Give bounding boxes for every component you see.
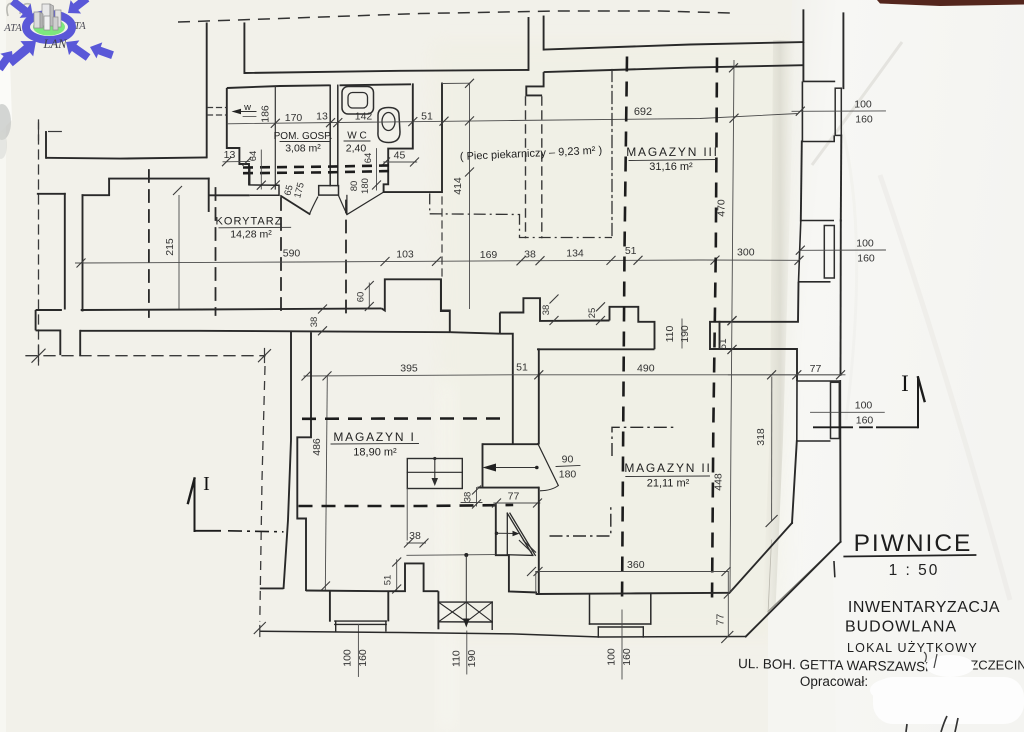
svg-text:180: 180 xyxy=(559,469,577,481)
dim 38 rotated at niche xyxy=(476,488,478,506)
wall: right outer x=843 upper xyxy=(842,13,844,88)
door arrow into MAG I xyxy=(483,464,497,472)
svg-text:395: 395 xyxy=(400,363,418,375)
wall: vertical x=244 top xyxy=(243,23,245,73)
building bottom line xyxy=(260,631,746,637)
dashed chimney lines down to furnace xyxy=(525,97,527,238)
wall: WC south-east steps xyxy=(384,149,442,193)
svg-text:MAGAZYN I: MAGAZYN I xyxy=(333,430,415,444)
thin line with dot y=555 xyxy=(407,554,495,557)
thick dashed vertical (MAG III left) xyxy=(622,57,627,607)
svg-text:TA: TA xyxy=(74,21,86,32)
wall: right inner below W3 xyxy=(792,441,797,523)
top long dashed wall line xyxy=(178,11,731,22)
svg-text:103: 103 xyxy=(396,249,414,261)
wall: pillar between doors xyxy=(319,186,339,196)
svg-text:186: 186 xyxy=(260,105,272,123)
svg-text:INWENTARYZACJA: INWENTARYZACJA xyxy=(848,599,1000,616)
wall: inner top wall right part xyxy=(544,65,804,72)
svg-text:100: 100 xyxy=(855,400,873,412)
logo: blue ellipse ring xyxy=(26,14,72,40)
logo: blue arrows star xyxy=(10,0,33,18)
sink in WC xyxy=(342,87,374,115)
svg-text:160: 160 xyxy=(857,253,875,265)
svg-text:38: 38 xyxy=(541,305,552,316)
thin top link x=442 to dim 469 xyxy=(442,82,470,84)
dashed line MAG I upper y=418 xyxy=(302,417,500,420)
wall: vertical x=442 xyxy=(441,84,443,193)
dim line 395 y=375 xyxy=(304,375,841,376)
svg-text:64: 64 xyxy=(248,151,259,162)
svg-text:51: 51 xyxy=(718,338,729,350)
wall: MAG II west wall upper xyxy=(538,349,540,375)
svg-text:490: 490 xyxy=(637,363,655,375)
dim 45 niche xyxy=(384,161,417,163)
thin dim vertical x=732 xyxy=(730,60,734,592)
svg-text:60: 60 xyxy=(356,292,367,303)
wall: chimney step below xyxy=(526,72,543,95)
dim 60 rotated xyxy=(368,283,370,308)
svg-text:13: 13 xyxy=(316,111,328,123)
wall: jog inner line x=719.5 xyxy=(719,322,721,349)
wall: MAG I bottom walls xyxy=(260,587,284,589)
svg-text:BUDOWLANA: BUDOWLANA xyxy=(845,619,957,636)
dashed property line horizontal y=355.7 xyxy=(26,355,265,357)
wall: step block x=500-540 xyxy=(450,332,500,334)
svg-text:38: 38 xyxy=(524,249,536,261)
svg-text:I: I xyxy=(901,371,909,396)
wall: small left lower stub xyxy=(35,310,37,330)
svg-text:LOKAL UŻYTKOWY: LOKAL UŻYTKOWY xyxy=(847,641,978,655)
svg-text:300: 300 xyxy=(737,247,755,259)
svg-text:51: 51 xyxy=(625,245,637,257)
svg-text:486: 486 xyxy=(311,438,323,456)
dim 360 line xyxy=(536,571,729,573)
wall: WC right x=411-413 xyxy=(412,84,414,148)
wall: corridor north wall with door jambs xyxy=(209,194,250,196)
left sheet bottom-right corner edge (diagonal paper cut) xyxy=(768,551,836,732)
svg-text:18,90 m²: 18,90 m² xyxy=(353,447,397,459)
svg-text:77: 77 xyxy=(810,363,822,375)
svg-text:590: 590 xyxy=(283,248,301,260)
svg-text:170: 170 xyxy=(285,112,303,124)
wall: corridor north-west pieces xyxy=(38,193,65,195)
dash-dot corner bottom in MAG II xyxy=(550,505,611,536)
wall: MAG I doorway right (niche) xyxy=(483,443,539,445)
tick on top wall at dim x=732 xyxy=(729,63,738,72)
toilet in WC xyxy=(378,108,400,143)
svg-text:110: 110 xyxy=(451,650,463,667)
svg-text:KORYTARZ: KORYTARZ xyxy=(216,216,283,228)
wall: lower jamb line xyxy=(477,487,538,489)
left end tick of bottom line xyxy=(259,626,261,637)
window W3 recess xyxy=(797,380,839,382)
dim 486 line x=325 xyxy=(325,376,327,591)
dim 100/160 rotated bottom MAG II xyxy=(621,610,623,679)
svg-text:142: 142 xyxy=(355,111,373,123)
soft creases right sheet xyxy=(812,42,902,165)
svg-text:51: 51 xyxy=(516,362,528,374)
dash mark near left dashed line xyxy=(49,131,62,133)
dim 110/190 rotated bottom xyxy=(466,631,468,674)
window W1 glass frame xyxy=(835,88,841,135)
svg-text:21,11 m²: 21,11 m² xyxy=(647,478,690,490)
svg-text:77: 77 xyxy=(715,614,727,626)
dashed long boundary x=263 xyxy=(260,366,265,622)
svg-text:100: 100 xyxy=(342,649,354,667)
svg-text:45: 45 xyxy=(394,150,406,162)
wall: right outer below W3 xyxy=(839,381,841,542)
heavy dashed row 1 xyxy=(243,165,391,167)
corner hatch marks xyxy=(519,541,531,553)
svg-text:MAGAZYN II: MAGAZYN II xyxy=(624,461,711,475)
wall: rooms top edge xyxy=(227,85,330,88)
svg-text:MAGAZYN III: MAGAZYN III xyxy=(626,145,718,159)
wall: MAGAZYN II bottom xyxy=(536,593,730,594)
window W3 glass frame xyxy=(831,382,840,438)
svg-text:190: 190 xyxy=(466,650,478,668)
svg-text:25: 25 xyxy=(587,308,598,319)
door D2 arc and leaf xyxy=(339,196,348,215)
logo: pencil scribble xyxy=(7,3,30,16)
svg-text:51: 51 xyxy=(383,575,394,586)
svg-text:90: 90 xyxy=(562,454,574,466)
stairs box bottom (cellar entrance) xyxy=(437,591,439,629)
arrow through bottom stairs xyxy=(465,555,467,620)
tick cross at (38.5,355.7) xyxy=(32,349,46,363)
svg-text:1 : 50: 1 : 50 xyxy=(889,562,940,579)
svg-text:31,16 m²: 31,16 m² xyxy=(649,161,693,173)
dashed line MAG I lower y=506 xyxy=(299,505,514,506)
terminal cross of dashed line y=355.7 xyxy=(258,349,271,362)
wall: right inner top x=803 xyxy=(802,10,804,42)
dim line y=262 long xyxy=(75,260,799,263)
dim 64 niche xyxy=(376,149,378,190)
logo: gray buildings xyxy=(34,4,61,30)
svg-text:80: 80 xyxy=(349,181,360,192)
svg-text:51: 51 xyxy=(421,111,433,123)
svg-text:64: 64 xyxy=(363,153,374,164)
window W2 glass frame xyxy=(824,226,834,279)
stair arrow small xyxy=(495,532,498,535)
thin dim vertical below stairs box xyxy=(406,489,408,541)
svg-text:38: 38 xyxy=(409,530,421,542)
wall: corridor south wall y=309 xyxy=(36,309,62,311)
wall: back wall y=349 to MAG II corner xyxy=(537,348,655,350)
wall: top-left vertical x=206 xyxy=(206,23,208,157)
stairs box in MAGAZYN I xyxy=(407,459,462,489)
door MAG I->II leaf + arc xyxy=(538,444,559,486)
svg-text:I: I xyxy=(203,473,210,495)
wall: MAGAZYN I left outer xyxy=(284,331,292,589)
wall: MAG I bottom right zigzag xyxy=(496,503,537,593)
dimension 100/160 window W1 xyxy=(792,110,886,112)
dash-dot corner top in MAG II xyxy=(612,427,675,456)
dashed property line vertical x=38.5 xyxy=(38,120,40,361)
svg-text:448: 448 xyxy=(712,473,724,491)
wall: small left stub x=46 xyxy=(45,132,47,158)
svg-text:100: 100 xyxy=(856,238,874,250)
svg-text:215: 215 xyxy=(164,238,176,256)
furnace dash-dot outline xyxy=(429,193,431,213)
dim 77 with line xyxy=(494,502,540,504)
short thin line at y=502 xyxy=(461,502,482,504)
wall: chimney verticals x=528.5/543.6 xyxy=(528,18,530,70)
long thin vertical dim x=469.5 xyxy=(469,83,471,308)
dim 100/160 rotated bottom left xyxy=(357,624,359,676)
wall: w-room left steps xyxy=(227,88,249,186)
window W3 dimension line 77 xyxy=(728,374,845,376)
small dash below diagonal xyxy=(833,562,836,577)
window W2 recess xyxy=(801,220,834,222)
svg-text:414: 414 xyxy=(452,177,464,195)
heavy dashed row 2 xyxy=(243,171,391,173)
svg-text:38: 38 xyxy=(463,492,474,503)
svg-text:77: 77 xyxy=(508,491,520,503)
door D1 leaf and arc xyxy=(281,196,310,214)
svg-text:Opracował:: Opracował: xyxy=(800,674,868,689)
svg-text:180: 180 xyxy=(360,178,371,194)
svg-text:100: 100 xyxy=(854,99,872,111)
dim 38 above window xyxy=(407,542,426,544)
right sheet (brighter paper) xyxy=(770,0,1024,732)
window box bottom MAG I xyxy=(329,591,331,622)
step wall with 60 xyxy=(382,279,450,332)
svg-text:190: 190 xyxy=(679,325,691,343)
dashed vertical x=442 (opening) xyxy=(441,197,443,280)
window box bottom MAG II xyxy=(589,594,591,624)
svg-text:160: 160 xyxy=(856,415,874,427)
thick dashed vertical (MAG III right) xyxy=(712,58,717,603)
dim 215 rotated + line xyxy=(178,196,180,309)
dimension line y=123 across rooms xyxy=(227,114,798,124)
svg-text:160: 160 xyxy=(855,114,873,126)
svg-text:100: 100 xyxy=(606,648,618,666)
svg-text:134: 134 xyxy=(566,248,584,260)
logo: green inner ellipse xyxy=(33,19,65,36)
gray smudge left edge xyxy=(0,104,11,140)
dim line 318 vertical near paper edge xyxy=(771,377,773,521)
dashed ceiling lines in corridor xyxy=(148,170,150,317)
svg-text:470: 470 xyxy=(716,199,728,217)
svg-text:PIWNICE: PIWNICE xyxy=(854,530,973,557)
window W1 recess xyxy=(802,42,804,81)
wall: MAG I right wall top x=512.8 xyxy=(500,334,513,445)
corner diagonal inner xyxy=(730,523,793,593)
wall: lower wall y=331 xyxy=(80,331,450,332)
wall: inner top wall y=73-70 xyxy=(244,70,528,73)
maroon scanner background strip top-right xyxy=(877,0,1024,6)
handwriting marks bottom right xyxy=(906,716,958,732)
wall: jog left below W2 xyxy=(710,282,799,381)
svg-text:110: 110 xyxy=(664,325,676,342)
light vertical strip bottom center xyxy=(438,380,456,732)
white blob over house number xyxy=(926,655,974,677)
svg-text:318: 318 xyxy=(755,428,767,446)
svg-text:ATA: ATA xyxy=(3,23,22,34)
wall: MAGAZYN I left inner with jogs xyxy=(297,332,311,591)
svg-text:LAN: LAN xyxy=(43,37,68,51)
left edge light strip xyxy=(0,0,6,732)
svg-text:692: 692 xyxy=(634,106,652,118)
tick on dashed line x=38.5 y=131.5 xyxy=(38,123,40,140)
svg-text:POM. GOSP.: POM. GOSP. xyxy=(274,131,333,142)
svg-text:2,40: 2,40 xyxy=(346,143,367,155)
wall: top outer wall to the right xyxy=(544,42,804,50)
svg-text:3,08 m²: 3,08 m² xyxy=(285,143,321,155)
section mark I left xyxy=(194,479,196,532)
wall: right between W1-W2 xyxy=(801,142,802,221)
wall: door jamb block left xyxy=(250,169,279,196)
wall: MAGAZYN II left x=538.8 xyxy=(538,375,540,444)
dimension 100/160 window W2 xyxy=(800,249,886,251)
svg-text:14,28 m²: 14,28 m² xyxy=(230,229,272,241)
wall: POM.GOSP left line x=275 xyxy=(274,86,276,189)
svg-text:160: 160 xyxy=(621,648,633,666)
wall: x=441 solid below xyxy=(441,280,451,311)
svg-text:169: 169 xyxy=(480,249,498,261)
thin dim verticals x=261/275 with ticks xyxy=(260,150,262,189)
dim 110/190 rotated mid xyxy=(681,319,683,348)
svg-text:38: 38 xyxy=(309,317,320,328)
wall: bottom of upper-left room y=157 xyxy=(46,157,207,158)
stairs triangle under MAG I xyxy=(506,513,508,554)
wall: chimney step up x=609-638 xyxy=(610,307,655,350)
svg-text:W C: W C xyxy=(347,131,366,142)
svg-text:160: 160 xyxy=(357,649,369,667)
wall: right outer through W2 xyxy=(840,221,842,375)
sheet overlap shadow band xyxy=(762,40,795,620)
wall: divider POM.GOSP/WC xyxy=(329,85,331,185)
svg-text:360: 360 xyxy=(627,559,645,571)
dashed link to w-room xyxy=(208,107,227,109)
corner diagonal outer xyxy=(746,542,841,637)
dimension 100/160 window W3 xyxy=(811,411,885,413)
white blob over name xyxy=(873,677,1024,724)
dim 51 rotated bottom xyxy=(396,560,398,592)
